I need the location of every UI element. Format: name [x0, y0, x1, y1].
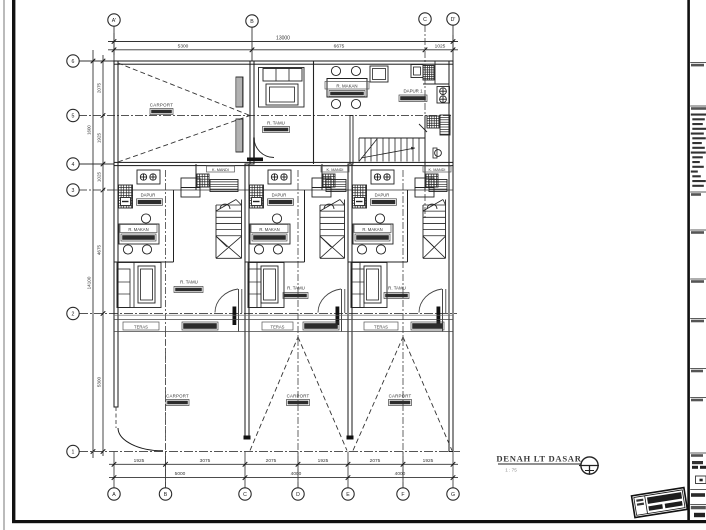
title block left border [687, 0, 690, 520]
door top house threshold [247, 158, 263, 162]
unit 2 hall wall vertical [304, 190, 306, 262]
left dimension line inner [102, 55, 104, 456]
svg-text:14100: 14100 [87, 276, 92, 289]
outer thin border left [3, 0, 5, 530]
wall top exterior [114, 61, 453, 64]
svg-text:R. TAMU: R. TAMU [287, 285, 305, 290]
svg-text:A: A [112, 492, 116, 498]
grid bubble E bottom [342, 488, 354, 500]
wall left dashed continuation [115, 407, 117, 428]
grid line C-top vertical dash-dot [424, 25, 426, 218]
svg-text:R. MAKAN: R. MAKAN [336, 84, 357, 89]
svg-text:TERAS: TERAS [271, 325, 285, 330]
carport 3 dashed triangle [353, 337, 403, 451]
party wall E [348, 164, 352, 437]
carport top dashed diagonal upper [118, 63, 250, 116]
dining table top band [327, 79, 367, 98]
grid line 2 dash-dot [79, 313, 457, 315]
bottom dimension line totals [109, 477, 458, 479]
grid bubble D bottom [292, 488, 304, 500]
svg-text:2075: 2075 [97, 82, 102, 93]
unit 1 sink cabinet [121, 198, 131, 206]
unit 2 kitchen counters [312, 178, 331, 188]
unit 1 dining chairs [141, 214, 150, 223]
unit 1 kitchen counters [181, 178, 200, 188]
svg-text:F: F [401, 492, 404, 498]
svg-text:13000: 13000 [276, 35, 290, 41]
wall grid3 line [114, 189, 453, 191]
title underline [498, 463, 581, 465]
svg-text:K. MANDI: K. MANDI [429, 168, 446, 172]
svg-text:1925: 1925 [423, 458, 434, 464]
svg-text:B: B [250, 19, 254, 25]
grid bubble D-prime top [447, 13, 459, 25]
grid bubble F bottom [397, 488, 409, 500]
unit 2 sofa set [248, 263, 284, 308]
unit 3 entry door arc [419, 289, 442, 313]
unit 1 stairs [215, 205, 217, 258]
sofa top band [259, 68, 305, 108]
wall left corner arc [118, 428, 163, 451]
top dimension line 13000 [108, 41, 458, 43]
stairs top band [359, 137, 425, 139]
teras label boxes unit 1 [123, 322, 159, 330]
unit 3 dining table [353, 224, 393, 244]
unit 3 sink cabinet [355, 198, 365, 206]
unit 2 bathroom partition [321, 164, 323, 190]
grid bubble G bottom [447, 488, 459, 500]
svg-text:CARPORT: CARPORT [166, 393, 189, 398]
unit 3 dining chairs [375, 214, 384, 223]
svg-text:R. MAKAN: R. MAKAN [128, 227, 148, 232]
svg-text:K. MANDI: K. MANDI [327, 168, 344, 172]
grid bubble 5 [67, 109, 79, 121]
svg-text:R. TAMU: R. TAMU [267, 121, 285, 126]
svg-text:DAPUR: DAPUR [141, 192, 156, 197]
unit 1 entry door jamb [238, 289, 240, 332]
svg-text:1025: 1025 [435, 44, 446, 50]
grid line D vertical dash-dot [297, 170, 299, 487]
kitchen island top band [370, 66, 388, 82]
planter upper on wall B [236, 77, 243, 107]
unit 2 bathroom tub striped [326, 180, 346, 192]
svg-text:C: C [243, 492, 247, 498]
unit 3 hall wall vertical [407, 190, 409, 262]
kitchen counter line top band [423, 83, 449, 85]
grid bubble 3 [67, 184, 79, 196]
bottom dimension line segments [109, 463, 458, 465]
carport 2 dashed triangle [250, 337, 298, 451]
grid line 3 dash-dot [79, 189, 114, 191]
svg-text:R. TAMU: R. TAMU [180, 279, 198, 284]
unit 1 hall wall vertical [173, 190, 175, 262]
door top house entry arc [254, 138, 274, 158]
teras band upper line [114, 319, 453, 321]
title block dividers and text [690, 62, 706, 64]
grid bubble C top [419, 13, 431, 25]
svg-text:1025: 1025 [97, 171, 102, 182]
party wall C [245, 164, 249, 437]
unit 1 bathroom label K MANDI [207, 166, 235, 172]
svg-text:TERAS: TERAS [134, 325, 148, 330]
teras band lower line [114, 331, 453, 333]
unit 3 stove [371, 170, 394, 184]
unit 2 dining label R MAKAN [251, 225, 288, 233]
grid line F vertical dash-dot [402, 170, 404, 487]
unit 3 sofa set [351, 263, 387, 308]
drawing frame left edge [12, 0, 15, 523]
grid bubble B top [246, 15, 258, 27]
svg-text:DAPUR: DAPUR [375, 192, 390, 197]
unit 2 dining wall horizontal [245, 261, 305, 263]
planter lower on wall B [236, 119, 243, 152]
unit 1 bathroom tub striped [210, 180, 238, 192]
unit 2 fridge hatched [250, 185, 264, 208]
svg-text:1 : 75: 1 : 75 [505, 468, 517, 473]
grid bubble C bottom [239, 488, 251, 500]
room label R MAKAN top [325, 82, 369, 90]
svg-text:5300: 5300 [178, 44, 189, 50]
grid bubble A bottom [108, 488, 120, 500]
grid line 6 leader [79, 60, 114, 62]
svg-text:D': D' [451, 17, 456, 23]
grid line 4 leader [79, 163, 114, 165]
svg-text:R. TAMU: R. TAMU [388, 285, 406, 290]
grid bubble 1 [67, 445, 79, 457]
unit 3 entry door jamb [442, 289, 444, 332]
door hall arrow top band [419, 124, 427, 132]
wall right exterior [449, 61, 453, 452]
svg-text:TERAS: TERAS [374, 325, 388, 330]
grid bubble 4 [67, 158, 79, 170]
title block bottom boxes [692, 461, 703, 464]
unit 1 bathroom partition [195, 164, 197, 190]
drawing frame bottom edge [12, 520, 706, 523]
svg-text:4: 4 [72, 162, 75, 168]
unit 2 bathroom label K MANDI [321, 166, 349, 172]
svg-text:CARPORT: CARPORT [150, 103, 174, 108]
grid line 5 dash-dot [79, 115, 453, 117]
grid bubble B bottom [159, 488, 171, 500]
svg-text:A': A' [112, 18, 116, 24]
svg-text:R. MAKAN: R. MAKAN [362, 227, 382, 232]
svg-text:1600: 1600 [87, 125, 92, 135]
teras band mid line [114, 314, 453, 316]
svg-text:C: C [423, 17, 427, 23]
svg-text:G: G [451, 492, 455, 498]
svg-text:D: D [296, 492, 300, 498]
approval stamp rotated [632, 488, 688, 518]
unit 2 stairs [319, 205, 321, 258]
svg-text:3075: 3075 [200, 458, 211, 464]
carport 1 dashed centerline [165, 332, 167, 451]
unit 3 kitchen counters [415, 178, 434, 188]
bath fixtures top band [427, 116, 439, 128]
left dimension line outer [92, 50, 94, 458]
svg-text:3: 3 [72, 188, 75, 194]
unit 1 sofa set [117, 263, 161, 308]
grid bubble A-prime top [108, 14, 120, 26]
unit 2 dining table [250, 224, 290, 244]
unit 3 dining wall horizontal [348, 261, 408, 263]
title block notes text lines [691, 114, 706, 116]
svg-text:6675: 6675 [334, 44, 345, 50]
stove burners right wall [437, 87, 450, 104]
unit 2 entry door jamb [341, 289, 343, 332]
kitchen sink top band [411, 65, 423, 78]
svg-text:6: 6 [72, 59, 75, 65]
unit 3 bathroom WC hatched [426, 174, 438, 187]
wall grid4 front [114, 162, 453, 165]
carport top dashed diagonal lower [118, 116, 250, 163]
svg-text:4000: 4000 [395, 471, 406, 477]
unit 3 entry door leaf [437, 307, 441, 326]
unit 2 sink cabinet [252, 198, 262, 206]
unit 1 bathroom WC hatched [197, 174, 209, 187]
grid stems top bubbles [113, 26, 115, 61]
top dimension line segments [108, 49, 458, 51]
teras label boxes unit 3 [364, 322, 398, 330]
unit 1 stove [137, 170, 160, 184]
svg-text:CARPORT: CARPORT [389, 393, 412, 398]
svg-text:K. MANDI: K. MANDI [212, 168, 229, 172]
unit 3 stairs [422, 205, 424, 258]
unit 1 entry door arc [215, 289, 238, 313]
unit 1 entry door leaf [233, 307, 237, 326]
svg-text:4675: 4675 [97, 244, 102, 255]
svg-text:5: 5 [72, 113, 75, 119]
unit 1 dining label R MAKAN [120, 225, 157, 233]
svg-text:1925: 1925 [318, 458, 329, 464]
unit 2 entry door arc [318, 289, 341, 313]
svg-text:1925: 1925 [97, 132, 102, 143]
svg-text:DAPUR: DAPUR [272, 192, 287, 197]
party wall C end cap [244, 436, 251, 440]
unit 2 stove [268, 170, 291, 184]
grid bubble 2 [67, 307, 79, 319]
wall left exterior [114, 61, 118, 407]
svg-text:E: E [346, 492, 350, 498]
wall mid top band [313, 61, 315, 164]
grid stems bottom bubbles [113, 452, 115, 488]
svg-text:5300: 5300 [97, 376, 102, 387]
svg-text:1925: 1925 [134, 458, 145, 464]
unit 3 bathroom tub striped [429, 180, 447, 192]
svg-text:2075: 2075 [370, 458, 381, 464]
unit 1 dining table [119, 224, 159, 244]
party wall E end cap [347, 436, 354, 440]
svg-text:CARPORT: CARPORT [287, 393, 310, 398]
svg-text:1: 1 [72, 449, 75, 455]
unit 1 dining wall horizontal [114, 261, 174, 263]
teras label boxes unit 2 [262, 322, 293, 330]
dining chairs top band [331, 66, 340, 75]
svg-text:2075: 2075 [266, 458, 277, 464]
svg-text:DAPUR 1: DAPUR 1 [403, 89, 423, 94]
bath partition top band [424, 116, 426, 165]
grid line B vertical dash-dot [165, 170, 167, 487]
grid bubble 6 [67, 55, 79, 67]
svg-text:5000: 5000 [175, 471, 186, 477]
svg-text:R. MAKAN: R. MAKAN [259, 227, 279, 232]
wall B top band [250, 61, 254, 164]
unit 3 fridge hatched [353, 185, 367, 208]
kitchen stove hatched top band [423, 66, 434, 81]
unit 1 fridge hatched [119, 185, 133, 208]
unit 3 bathroom partition [424, 164, 426, 190]
grid line 1 dash-dot [79, 451, 460, 453]
unit 2 dining chairs [272, 214, 281, 223]
svg-text:DENAH LT DASAR: DENAH LT DASAR [496, 454, 581, 464]
north symbol circle [581, 457, 598, 474]
unit 3 bathroom label K MANDI [423, 166, 451, 172]
svg-text:4000: 4000 [291, 471, 302, 477]
svg-text:2: 2 [72, 311, 75, 317]
unit 2 bathroom WC hatched [323, 174, 335, 187]
wall E extension top band [350, 116, 353, 165]
unit 2 entry door leaf [336, 307, 340, 326]
unit 3 dining label R MAKAN [354, 225, 391, 233]
svg-text:B: B [164, 492, 168, 498]
